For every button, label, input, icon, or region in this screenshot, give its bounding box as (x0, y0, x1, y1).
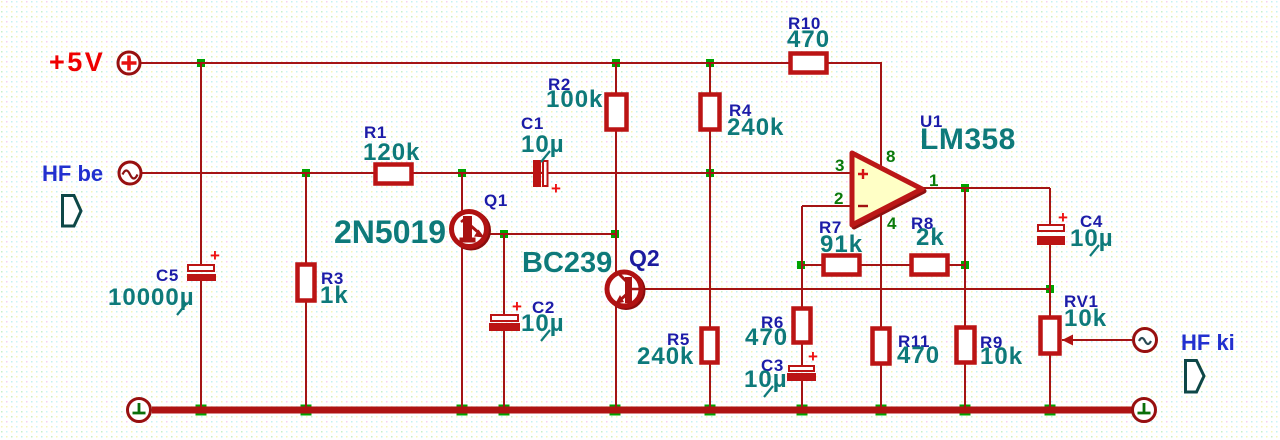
svg-text:1k: 1k (320, 282, 349, 309)
svg-text:470: 470 (897, 342, 940, 369)
svg-text:100k: 100k (546, 86, 603, 113)
svg-text:10k: 10k (1064, 305, 1107, 332)
svg-text:10000µ: 10000µ (108, 284, 195, 311)
svg-text:+: + (551, 179, 561, 198)
svg-text:470: 470 (787, 26, 830, 53)
svg-text:240k: 240k (637, 343, 694, 370)
svg-text:10µ: 10µ (521, 131, 565, 158)
svg-text:+: + (210, 246, 220, 265)
svg-text:+: + (808, 347, 818, 366)
svg-text:2N5019: 2N5019 (334, 214, 446, 250)
svg-text:10µ: 10µ (521, 310, 565, 337)
svg-text:Q1: Q1 (484, 191, 508, 210)
svg-text:HF be: HF be (42, 161, 103, 186)
svg-text:C5: C5 (156, 266, 179, 285)
svg-text:10µ: 10µ (744, 366, 788, 393)
svg-text:240k: 240k (727, 114, 784, 141)
svg-text:1: 1 (929, 171, 938, 190)
svg-text:LM358: LM358 (920, 123, 1016, 156)
svg-text:Q2: Q2 (629, 245, 660, 271)
svg-text:4: 4 (887, 214, 897, 233)
svg-text:10k: 10k (980, 343, 1023, 370)
svg-text:3: 3 (835, 156, 844, 175)
svg-text:8: 8 (886, 147, 895, 166)
svg-text:BC239: BC239 (522, 247, 612, 279)
svg-text:2: 2 (834, 189, 843, 208)
svg-text:91k: 91k (820, 231, 863, 258)
svg-text:2k: 2k (916, 224, 945, 251)
svg-text:+: + (1058, 208, 1068, 227)
svg-text:+5V: +5V (49, 47, 105, 77)
svg-text:10µ: 10µ (1070, 225, 1114, 252)
svg-text:120k: 120k (363, 139, 420, 166)
svg-text:470: 470 (745, 324, 788, 351)
svg-text:HF ki: HF ki (1181, 330, 1235, 355)
